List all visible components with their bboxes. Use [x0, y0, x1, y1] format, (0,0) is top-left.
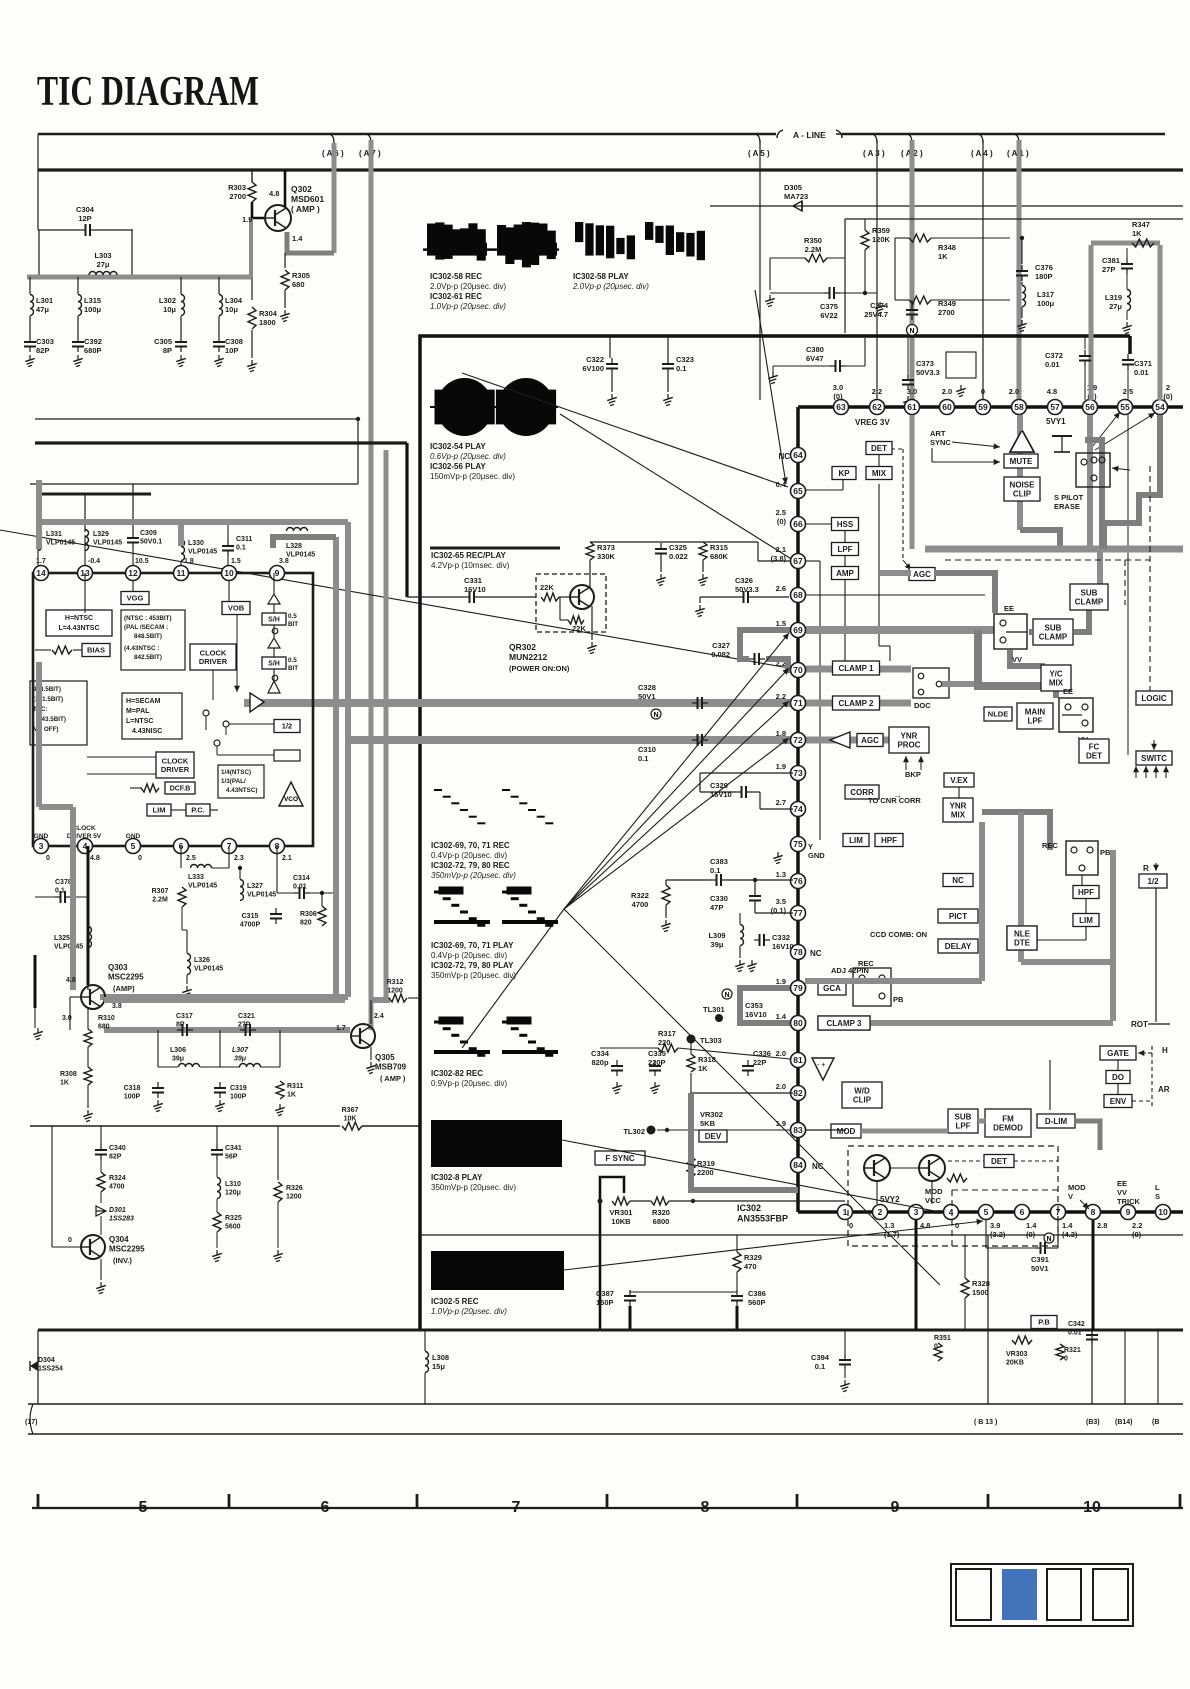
svg-text:10: 10: [1158, 1207, 1168, 1217]
block SWITCH cropped: [1136, 751, 1172, 765]
wire to R304: [251, 277, 253, 300]
junction R319 bottom: [691, 1199, 695, 1203]
wire gray Q303 emitter corridor: [104, 997, 345, 1003]
wire heavy pin8 down: [1092, 1220, 1095, 1330]
wire HSS to LPF: [844, 530, 846, 542]
svg-text:0.4: 0.4: [776, 480, 787, 489]
arrow 3 below SWITCH: [1153, 766, 1159, 778]
svg-text:VOB: VOB: [228, 604, 245, 613]
svg-text:P.C.: P.C.: [191, 806, 205, 815]
IC302 pin 55: [1118, 400, 1133, 415]
wire C304 loop top: [38, 229, 80, 231]
IC302 pin 2: [873, 1205, 888, 1220]
ground R326: [273, 1250, 283, 1262]
wire gray left edge upper: [36, 480, 42, 549]
wire top horizontal rail right of A-LINE label: [842, 133, 1165, 136]
wire SECAM box to CLOCK DRIVER 2 upper: [87, 756, 156, 758]
svg-text:L30210μ: L30210μ: [159, 296, 177, 314]
wire gray EE switch to Y/C MIX: [1010, 650, 1042, 668]
svg-text:C30382P: C30382P: [36, 337, 54, 355]
IC302 pin 67: [791, 554, 806, 569]
wire C380 left: [773, 365, 830, 367]
test point TL303: [687, 1035, 696, 1044]
svg-text:(B3): (B3): [1086, 1419, 1100, 1426]
IC301 pin 14: [34, 566, 49, 581]
svg-text:TL303: TL303: [700, 1036, 722, 1045]
svg-text:HSS: HSS: [837, 520, 854, 529]
svg-text:IC302-61 REC: IC302-61 REC: [430, 292, 482, 301]
ground R305: [280, 310, 290, 322]
svg-text:L30939μ: L30939μ: [708, 931, 725, 949]
wire thin vertical pin55 down: [1127, 415, 1129, 755]
wire gray corridor to Q305: [104, 1027, 350, 1033]
block CLAMP 3 (redraw): [818, 1016, 870, 1030]
block DCF.B: [165, 782, 195, 794]
IC301 pin 8: [270, 839, 285, 854]
wire L331 drop: [37, 494, 39, 532]
svg-text:58: 58: [1014, 402, 1024, 412]
wire Q304 base column: [51, 1126, 53, 1247]
svg-text:C3250.022: C3250.022: [669, 543, 688, 561]
svg-text:C3140.01: C3140.01: [293, 875, 310, 891]
svg-text:C3720.01: C3720.01: [1045, 351, 1063, 369]
svg-text:R3481K: R3481K: [938, 243, 956, 261]
wire ROT tick: [1148, 1023, 1170, 1025]
svg-text:(PAL /SECAM :: (PAL /SECAM :: [124, 624, 168, 631]
wire gray ring right outer: [345, 522, 351, 997]
pointer arrow to pin at y=668: [564, 668, 789, 909]
arrow into 1/2 box: [1153, 863, 1159, 871]
block HPF right: [1073, 886, 1099, 899]
svg-text:D-LIM: D-LIM: [1045, 1117, 1068, 1126]
waveform photo IC302-58 PLAY part2: [645, 222, 705, 260]
wire gray elbow into EE switch: [934, 573, 995, 613]
block CLOCK DRIVER 1: [190, 644, 236, 670]
switch contact b: [223, 721, 229, 727]
inductor L303 27u: [89, 272, 117, 275]
svg-text:Q304MSC2295: Q304MSC2295: [109, 1235, 145, 1254]
block DET lower: [984, 1155, 1014, 1168]
IC302 pin 71 (redraw): [791, 696, 806, 711]
svg-text:N: N: [909, 328, 914, 335]
svg-text:76: 76: [793, 876, 803, 886]
svg-text:IC302-8 PLAY: IC302-8 PLAY: [431, 1173, 483, 1182]
resistor R324 4700: [97, 1172, 105, 1192]
IC301 pin 6: [174, 839, 189, 854]
transistor Q303 MSC2295: [81, 985, 105, 1009]
inductor L301 47u: [30, 295, 34, 316]
IC302 pin 69 (redraw): [791, 623, 806, 638]
svg-text:81: 81: [793, 1055, 803, 1065]
svg-text:L30639μ: L30639μ: [170, 1047, 186, 1063]
block DET: [866, 442, 892, 455]
svg-text:C3806V47: C3806V47: [806, 345, 824, 363]
IC302 pin 1: [838, 1205, 853, 1220]
pointer line from IC302-8 PLAY photo: [562, 1140, 940, 1212]
svg-text:SUB: SUB: [1045, 623, 1062, 632]
resistor at BIAS: [52, 646, 72, 654]
wire gray S PILOT descent corridor: [1085, 440, 1102, 549]
wire AMP down to CLAMP1: [844, 580, 846, 661]
IC301 pin 9: [270, 566, 285, 581]
svg-text:C34156P: C34156P: [225, 1145, 242, 1161]
capacitor C329 16V10: [736, 786, 752, 798]
page indicator square 4: [1093, 1569, 1128, 1620]
wire bottom border line 1: [28, 1403, 1183, 1405]
dashed internal horizontal: [952, 1189, 1058, 1191]
switch contacts S PILOT: [1081, 457, 1105, 481]
IC302 pin 10: [1156, 1205, 1171, 1220]
capacitor C341 56P: [211, 1144, 223, 1160]
svg-text:842.5BIT): 842.5BIT): [134, 654, 162, 661]
svg-text:R3081K: R3081K: [60, 1071, 77, 1087]
svg-text:1: 1: [843, 1207, 848, 1217]
svg-text:10: 10: [1083, 1499, 1101, 1516]
svg-text:2.5: 2.5: [186, 855, 196, 862]
svg-text:2: 2: [878, 1207, 883, 1217]
inductor L319 27u: [1127, 290, 1131, 311]
svg-text:C3940.1: C3940.1: [811, 1353, 830, 1371]
waveform photo IC302-58 REC: [423, 222, 559, 267]
block NOISE CLIP: [1004, 477, 1040, 501]
svg-text:H: H: [1162, 1046, 1168, 1055]
ground L319: [1122, 322, 1132, 334]
svg-text:S PILOTERASE: S PILOTERASE: [1054, 493, 1084, 511]
svg-text:GATE: GATE: [1107, 1049, 1129, 1058]
svg-text:C3780.1: C3780.1: [55, 879, 72, 895]
svg-text:NC: NC: [778, 452, 790, 461]
wire gray Q305 collector to R312: [371, 997, 390, 1003]
svg-text:2.3: 2.3: [234, 855, 244, 862]
dashed box QR302: [536, 574, 606, 632]
svg-text:65: 65: [793, 486, 803, 496]
svg-text:W/D: W/D: [854, 1086, 870, 1095]
block CLAMP 1: [833, 661, 880, 675]
svg-text:L315100μ: L315100μ: [84, 296, 102, 314]
block AGC at pin 72: [857, 734, 883, 747]
block GATE: [1100, 1046, 1136, 1060]
svg-text:FC: FC: [1089, 742, 1100, 751]
resistor R329 470: [733, 1252, 741, 1272]
svg-text:P.B: P.B: [1038, 1318, 1050, 1327]
svg-text:IC302-72, 79, 80 PLAY: IC302-72, 79, 80 PLAY: [431, 961, 514, 970]
block HPF: [875, 834, 903, 847]
svg-text:C30412P: C30412P: [76, 205, 95, 223]
svg-text:3.9(3.2): 3.9(3.2): [990, 1221, 1006, 1239]
wire contact to 1/2 box: [229, 723, 274, 725]
svg-text:DEMOD: DEMOD: [993, 1123, 1023, 1132]
svg-text:C3230.1: C3230.1: [676, 355, 694, 373]
svg-text:L329VLP0145: L329VLP0145: [93, 531, 122, 547]
switch EE/VV at SUB CLAMP: [994, 614, 1027, 649]
svg-text:9: 9: [1126, 1207, 1131, 1217]
svg-text:14: 14: [36, 568, 46, 578]
IC302 pin 74: [791, 802, 806, 817]
wire gray long vertical x386: [384, 450, 389, 1000]
svg-text:MIX: MIX: [872, 469, 887, 478]
IC302 pin 84: [791, 1158, 806, 1173]
arrow 4 below SWITCH: [1163, 766, 1169, 778]
svg-text:C33216V10: C33216V10: [772, 933, 794, 951]
wire gray ring inner top: [273, 537, 336, 548]
svg-text:TL302: TL302: [623, 1127, 645, 1136]
svg-text:62: 62: [872, 402, 882, 412]
svg-text:PICT: PICT: [949, 912, 967, 921]
wire bracket right of C373: [946, 352, 976, 378]
svg-text:1.3: 1.3: [776, 870, 786, 879]
transistor QR302 MUN2212: [570, 585, 594, 609]
ground C319: [215, 1100, 225, 1112]
svg-text:LPF: LPF: [955, 1121, 970, 1130]
pointer line from IC302-54 to pin 67: [560, 414, 793, 560]
svg-text:TO CNR CORR: TO CNR CORR: [868, 796, 921, 805]
svg-text:0.4Vp-p (20μsec. div): 0.4Vp-p (20μsec. div): [431, 951, 508, 960]
svg-text:350mVp-p (20μsec. div): 350mVp-p (20μsec. div): [431, 1183, 516, 1192]
resistor R328 1500: [961, 1278, 969, 1298]
svg-text:R3111K: R3111K: [287, 1083, 303, 1099]
page indicator square 3: [1047, 1569, 1081, 1620]
ruler tick at 417: [416, 1494, 419, 1508]
arrow into SWITCH: [1151, 740, 1157, 750]
resistor R318 1K: [687, 1054, 695, 1072]
resistor R320 6800: [651, 1197, 669, 1205]
inductor L315 100u: [78, 295, 82, 316]
dashed wire to DET: [948, 1160, 984, 1162]
wire R317 to pin 81: [678, 1048, 790, 1059]
resistor R307 2.2M: [178, 887, 186, 907]
IC302 pin 66: [791, 517, 806, 532]
svg-text:C3100.1: C3100.1: [638, 745, 656, 763]
buffer triangle 3: [268, 681, 280, 693]
svg-text:KP: KP: [838, 469, 850, 478]
wire gray DOC to corridor: [942, 681, 974, 687]
ground QR302: [587, 642, 597, 654]
capacitor C304 12P: [80, 224, 96, 236]
wire gray ring bottom: [100, 994, 348, 1000]
transistor modulator Q right: [919, 1155, 945, 1181]
svg-text:R3492700: R3492700: [938, 299, 956, 317]
svg-text:GCA: GCA: [823, 984, 841, 993]
svg-text:2.0: 2.0: [776, 1082, 786, 1091]
IC301 pin 13: [78, 566, 93, 581]
svg-text:2.4: 2.4: [374, 1013, 384, 1020]
IC302 pin 6: [1015, 1205, 1030, 1220]
svg-text:M=PAL: M=PAL: [126, 708, 150, 715]
svg-text:NC: NC: [810, 949, 822, 958]
block MUTE: [1004, 454, 1038, 468]
svg-text:(B: (B: [1152, 1419, 1159, 1426]
svg-text:(AMP): (AMP): [113, 984, 135, 993]
IC302 pin 83: [791, 1123, 806, 1138]
svg-text:4.2Vp-p (10msec. div): 4.2Vp-p (10msec. div): [431, 561, 510, 570]
IC302 pin 60: [940, 400, 955, 415]
IC302 pin 79: [791, 981, 806, 996]
wire box left edge under R350: [844, 219, 846, 333]
ground R311: [275, 1104, 285, 1116]
svg-text:4.8: 4.8: [1047, 387, 1057, 396]
capacitor C323 0.1: [662, 358, 674, 374]
wire left edge vertical: [37, 134, 39, 230]
block S/H 1: [262, 613, 286, 625]
wire C330 to pin77 rail: [754, 906, 756, 913]
IC302 pin 59: [976, 400, 991, 415]
svg-text:0: 0: [849, 1221, 853, 1230]
svg-text:MIX: MIX: [1049, 678, 1064, 687]
svg-text:C32650V3.3: C32650V3.3: [735, 576, 759, 594]
switch contact S/H 1: [272, 628, 278, 634]
IC302 pin 78: [791, 945, 806, 960]
capacitor C310 0.1: [692, 734, 708, 746]
svg-text:L327VLP0145: L327VLP0145: [247, 883, 276, 899]
capacitor C326 50V3.3: [738, 591, 754, 603]
block 1/4 NTSC dividers: [218, 765, 264, 798]
svg-text:DELAY: DELAY: [945, 942, 972, 951]
wire gray drop to pin 11: [178, 522, 184, 546]
IC302 pin 57: [1048, 400, 1063, 415]
resistor R359 120K: [861, 230, 869, 250]
svg-text:4.8: 4.8: [90, 855, 100, 862]
waveform IC302-69,70,71 REC staircase: [434, 790, 553, 823]
capacitor C380 6V47: [830, 360, 846, 372]
capacitor C328 50V1: [692, 697, 708, 709]
resistor R315 680K: [699, 542, 707, 560]
switch contacts DOC: [918, 673, 942, 695]
svg-text:2.1: 2.1: [282, 855, 292, 862]
resistor R350 2.2M: [805, 254, 827, 262]
svg-text:2.0: 2.0: [942, 387, 952, 396]
IC302 pin 75: [791, 837, 806, 852]
capacitor C373 50V3.3: [902, 374, 914, 390]
wire MIX down vertical: [878, 484, 880, 646]
svg-text:IC302-69, 70, 71 PLAY: IC302-69, 70, 71 PLAY: [431, 941, 514, 950]
svg-text:TL301: TL301: [703, 1005, 725, 1014]
wire gray elbow at left: [39, 804, 73, 810]
svg-text:R3244700: R3244700: [109, 1175, 126, 1191]
svg-text:2.6: 2.6: [776, 584, 786, 593]
wire A4 vertical drop to pin 59: [982, 140, 984, 400]
ruler tick at 797: [796, 1494, 799, 1508]
capacitor C342 0.01: [1086, 1329, 1098, 1345]
circled N at pin 79 loop: [722, 989, 732, 999]
wire C309 drop: [132, 484, 134, 532]
IC301 pin 5: [126, 839, 141, 854]
svg-text:MOD: MOD: [837, 1127, 856, 1136]
wire A7 long vertical bus: [369, 140, 374, 1030]
IC302 pin 72 (redraw): [791, 733, 806, 748]
wire gray SUB CLAMP1 to SUB CLAMP2: [1074, 610, 1089, 632]
capacitor C387 150P: [624, 1290, 636, 1306]
block H=NTSC L=4.43NTSC: [46, 610, 112, 636]
wire heavy bottom rail: [38, 1329, 1183, 1332]
block W/D CLIP: [842, 1082, 882, 1108]
switch S PILOT ERASE: [1076, 453, 1110, 487]
block DEV: [699, 1130, 727, 1142]
wire heavy border of center block: [420, 336, 1130, 1330]
svg-text:2.2: 2.2: [872, 387, 882, 396]
capacitor C381 27P: [1121, 258, 1133, 274]
svg-text:REC: REC: [858, 959, 874, 968]
svg-text:IC302-69, 70, 71 REC: IC302-69, 70, 71 REC: [431, 841, 510, 850]
svg-text:V.EX: V.EX: [950, 776, 968, 785]
wire gray branch down from pin69 bus: [978, 630, 1041, 686]
oscillator VCO triangle: [279, 782, 303, 806]
svg-text:PB: PB: [1100, 848, 1111, 857]
block LIM right: [1073, 914, 1099, 927]
svg-text:4.8: 4.8: [269, 189, 279, 198]
svg-text:4.43NISC: 4.43NISC: [132, 728, 162, 735]
wire heavy drop pin4: [87, 846, 90, 985]
capacitor C330 47P: [749, 890, 761, 906]
page indicator outer frame: [951, 1564, 1133, 1626]
wire thin mid rail: [35, 418, 358, 420]
resistor R311 1K: [276, 1081, 284, 1099]
block F SYNC: [595, 1151, 645, 1165]
IC302 pin 4: [944, 1205, 959, 1220]
block LIM in IC301: [147, 804, 171, 816]
capacitor C386 560P: [731, 1290, 743, 1306]
block KP: [832, 467, 856, 480]
svg-text:LPF: LPF: [837, 545, 852, 554]
svg-text:-0.4: -0.4: [88, 558, 100, 565]
test point TL301: [715, 1014, 723, 1022]
resistor R310 680: [84, 1029, 92, 1047]
wire C387-C386 top: [630, 1291, 737, 1293]
svg-text:R359120K: R359120K: [872, 226, 891, 244]
IC302 pin 61: [905, 400, 920, 415]
wire DET to MIX: [878, 455, 880, 466]
svg-text:C35316V10: C35316V10: [745, 1001, 767, 1019]
wire Q302 base feed: [252, 202, 264, 218]
wire at pin 74: [760, 808, 793, 810]
block HSS: [832, 518, 859, 531]
buffer triangle large: [250, 693, 264, 712]
wire pin66 to HSS: [806, 523, 832, 525]
block VOB: [222, 602, 250, 615]
svg-text:MODV: MODV: [1068, 1183, 1086, 1201]
capacitor C315 4700P: [270, 908, 282, 924]
capacitor C319 100P: [214, 1082, 226, 1098]
wire pin65 to KP: [806, 489, 843, 491]
svg-text:C32850V1: C32850V1: [638, 683, 656, 701]
svg-text:1.4: 1.4: [776, 1012, 787, 1021]
inductor L329 VLP0145: [85, 530, 89, 551]
resistor R306 820: [318, 906, 326, 926]
wire V.EX to YNR MIX: [958, 787, 960, 798]
inductor L309 39u: [740, 925, 744, 946]
capacitor C321 27P: [240, 1024, 256, 1036]
wire gray pin54 column: [1158, 245, 1163, 400]
wire at pin 82: [691, 1092, 793, 1094]
wire gray bus pin56 through S PILOT switch: [1087, 415, 1093, 549]
svg-text:73: 73: [793, 768, 803, 778]
svg-text:VGG: VGG: [127, 594, 144, 603]
svg-text:9: 9: [891, 1499, 900, 1516]
svg-text:VCO: VCO: [284, 796, 298, 803]
svg-text:1.7: 1.7: [336, 1025, 346, 1032]
wire gray horizontal corridor y962: [1021, 959, 1113, 965]
wire pin13 to H=NTSC box: [84, 573, 86, 613]
wire to C331: [407, 596, 464, 598]
svg-text:LPF: LPF: [1027, 716, 1042, 725]
resistor R373 330K: [586, 542, 594, 560]
pointer line from IC302-58 label to pin 65: [462, 373, 788, 487]
svg-text:(NTSC : 453BIT): (NTSC : 453BIT): [124, 615, 172, 622]
svg-text:56: 56: [1085, 402, 1095, 412]
svg-text:L30815μ: L30815μ: [432, 1353, 449, 1371]
block FC DET: [1079, 739, 1109, 763]
svg-text:NLE: NLE: [1014, 929, 1031, 938]
svg-text:N: N: [1046, 1236, 1051, 1243]
